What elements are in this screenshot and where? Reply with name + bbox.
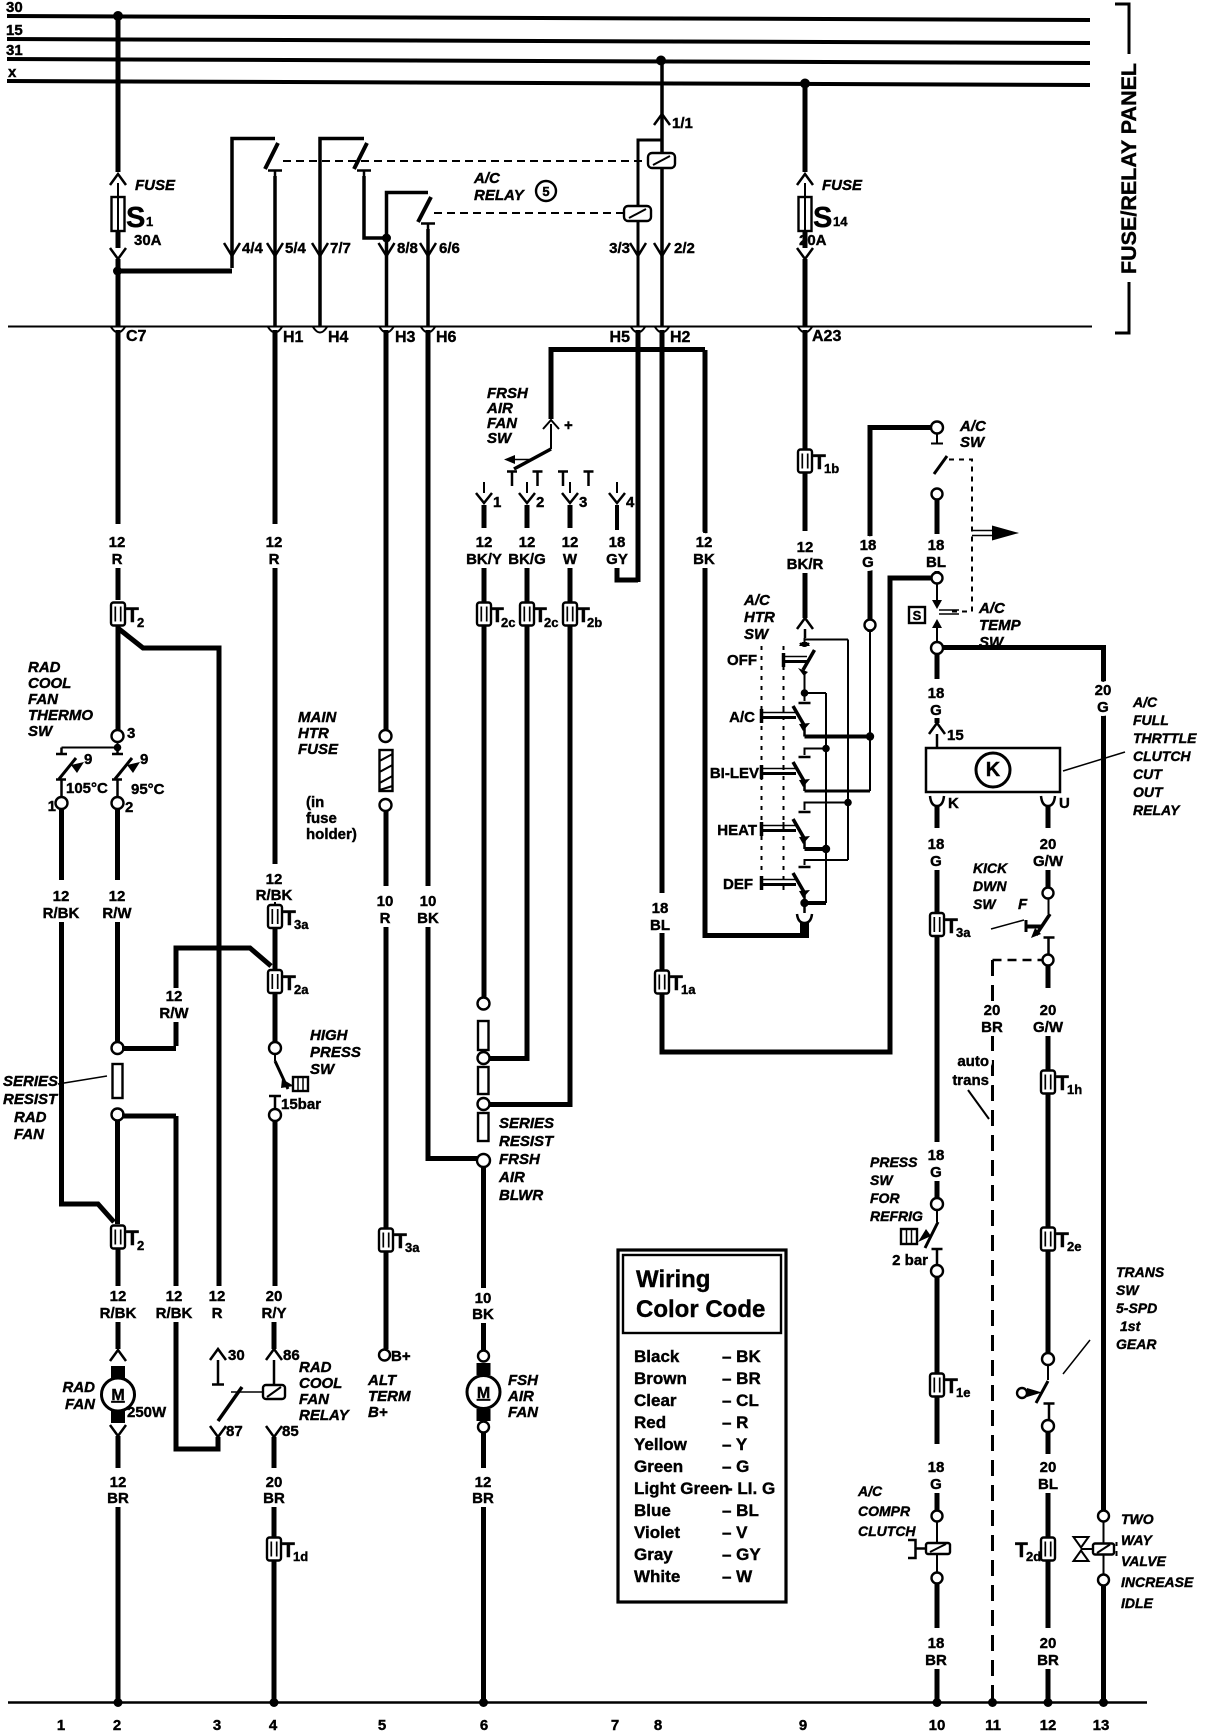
svg-text:– BK: – BK [722, 1347, 761, 1366]
svg-text:FAN: FAN [508, 1404, 539, 1421]
svg-text:RESIST: RESIST [3, 1091, 59, 1108]
connector T1h [1041, 1071, 1055, 1094]
relay 30 contact bar [212, 1360, 224, 1385]
wire trans sw down [1046, 1432, 1051, 1454]
connector T2c (2) [520, 603, 534, 626]
relay switch C left leg [387, 193, 429, 239]
svg-text:18: 18 [928, 685, 945, 702]
svg-text:Gray: Gray [634, 1545, 673, 1564]
svg-text:250W: 250W [127, 1404, 167, 1421]
svg-text:18: 18 [652, 900, 669, 917]
svg-text:2: 2 [125, 799, 133, 816]
svg-text:8/8: 8/8 [397, 240, 418, 257]
HEAT output wire [805, 847, 827, 851]
svg-text:8: 8 [654, 1717, 662, 1732]
two way valve linkage dashes [1116, 1542, 1118, 1556]
svg-text:9: 9 [140, 751, 148, 768]
svg-text:HEAT: HEAT [717, 822, 757, 839]
arrow 2/2 [654, 243, 670, 256]
svg-text:12: 12 [110, 1288, 127, 1305]
svg-text:FOR: FOR [870, 1190, 900, 1206]
svg-text:– BR: – BR [722, 1369, 761, 1388]
connector T1d [267, 1538, 281, 1561]
auto trans pointer [968, 1090, 989, 1119]
svg-text:TRANS: TRANS [1116, 1264, 1165, 1280]
svg-text:TWO: TWO [1121, 1511, 1154, 1527]
svg-text:G/W: G/W [1033, 1019, 1064, 1036]
svg-text:R: R [380, 910, 391, 927]
dashed auto trans branch [993, 959, 1043, 962]
high press sw blade [274, 1054, 276, 1061]
svg-text:G: G [930, 1476, 942, 1493]
svg-text:20: 20 [1040, 836, 1057, 853]
trans sw bottom terminal [1042, 1420, 1054, 1432]
relay switch B left leg (H4) [320, 139, 364, 327]
svg-text:THERMO: THERMO [28, 707, 93, 724]
ground dot auto trans [988, 1698, 997, 1707]
svg-text:A/C: A/C [473, 170, 501, 187]
svg-text:REFRIG: REFRIG [870, 1208, 923, 1224]
svg-text:2b: 2b [587, 615, 602, 630]
wire terminal 1 down [59, 809, 64, 880]
svg-text:1: 1 [146, 214, 153, 229]
svg-text:2: 2 [137, 615, 144, 630]
svg-text:BK/G: BK/G [508, 551, 546, 568]
wire bottom node to lower T2 [115, 1120, 120, 1224]
svg-text:2a: 2a [294, 982, 309, 997]
svg-text:R: R [269, 551, 280, 568]
wire H6 down [426, 330, 431, 886]
terminal hook A23 [798, 327, 812, 333]
svg-text:30A: 30A [134, 232, 162, 249]
svg-text:FUSE: FUSE [135, 177, 176, 194]
svg-text:BLWR: BLWR [499, 1187, 543, 1204]
RAD COOL FAN RELAY contact 30 arrow [210, 1349, 226, 1360]
arrow up into fuse S14 [797, 174, 813, 185]
svg-text:1st: 1st [1120, 1318, 1142, 1334]
svg-text:3: 3 [213, 1717, 221, 1732]
svg-text:WAY: WAY [1121, 1532, 1154, 1548]
wire trans to ground [1046, 1669, 1051, 1702]
svg-text:R/BK: R/BK [100, 1305, 137, 1322]
temp sw top node [932, 573, 943, 584]
arrow down out of fuse S1 [110, 248, 126, 259]
junction dot below OFF [801, 689, 809, 697]
svg-text:1b: 1b [824, 461, 839, 476]
harness arrow 2 [526, 482, 528, 493]
A/C blade [793, 706, 804, 725]
wire terminal 2 down [115, 809, 120, 880]
chain resistor 1 [478, 1021, 489, 1050]
wire to T3a (right) [935, 870, 940, 913]
wire arrow4 down [615, 505, 619, 530]
svg-text:TEMP: TEMP [979, 617, 1022, 634]
alternator B+ terminal [379, 1350, 390, 1361]
wire 85 down [272, 1437, 277, 1468]
SEPARATOR LINE (fuse panel bottom) [8, 326, 1092, 328]
svg-text:G: G [862, 554, 874, 571]
wire U down [1046, 806, 1051, 828]
RAD COOL FAN THERMO SW: terminal 3 [112, 730, 124, 742]
svg-text:20: 20 [266, 1288, 283, 1305]
color code rows [634, 1347, 775, 1586]
wire kick down sw down [1046, 966, 1051, 988]
wire chain node4 down [481, 1167, 486, 1288]
R/W branch from T2a [176, 948, 271, 1046]
svg-text:SERIES: SERIES [499, 1115, 554, 1132]
HEAT input T-bar [799, 811, 811, 814]
svg-text:FAN: FAN [14, 1126, 45, 1143]
wire fuse S14 lower [803, 231, 808, 248]
series resistor rad fan body [113, 1064, 123, 1098]
svg-text:FULL: FULL [1133, 712, 1169, 728]
wire T1a elbow up to A/C switch [662, 578, 932, 1052]
svg-text:12: 12 [110, 1474, 127, 1491]
wire fsh motor down [481, 1432, 486, 1468]
ground dot two way valve [1099, 1698, 1108, 1707]
relay switch C contact [421, 224, 435, 230]
svg-text:BL: BL [1038, 1476, 1058, 1493]
wire H5 down [636, 330, 641, 582]
fan switch contact posts [507, 472, 517, 487]
ground dot blower [479, 1698, 488, 1707]
svg-text:12: 12 [797, 539, 814, 556]
DEF output wire [805, 901, 827, 905]
svg-text:BK: BK [693, 551, 715, 568]
svg-text:White: White [634, 1567, 680, 1586]
svg-text:5: 5 [542, 184, 549, 199]
connector T2c (1) [477, 603, 491, 626]
wire a/c sw down [935, 499, 940, 534]
DEF contact [760, 876, 764, 890]
svg-text:auto: auto [957, 1053, 989, 1070]
wire to T2 [116, 568, 121, 600]
svg-text:10: 10 [377, 893, 394, 910]
trans sw top terminal [1042, 1353, 1054, 1365]
svg-text:2c: 2c [501, 615, 515, 630]
relay U output hook [1041, 796, 1055, 806]
svg-text:FUSE/RELAY PANEL: FUSE/RELAY PANEL [1117, 63, 1141, 274]
svg-text:H1: H1 [283, 329, 304, 346]
svg-text:1/1: 1/1 [672, 115, 693, 132]
svg-text:SERIES: SERIES [3, 1073, 58, 1090]
svg-text:2d: 2d [1026, 1549, 1041, 1564]
arrow 1/1 [654, 114, 670, 125]
svg-text:R/BK: R/BK [256, 887, 293, 904]
press sw top terminal [931, 1198, 943, 1210]
harness arrow 4 [616, 482, 618, 493]
svg-text:– Y: – Y [722, 1435, 748, 1454]
svg-text:COOL: COOL [28, 675, 71, 692]
svg-text:BR: BR [472, 1490, 494, 1507]
svg-text:5-SPD: 5-SPD [1116, 1300, 1157, 1316]
terminal hook H4 [313, 327, 327, 333]
svg-text:2: 2 [113, 1717, 121, 1732]
svg-text:BR: BR [981, 1019, 1003, 1036]
svg-text:1d: 1d [293, 1549, 308, 1564]
svg-text:PRESS: PRESS [870, 1154, 918, 1170]
terminal hook H2 [655, 327, 669, 333]
svg-text:– BL: – BL [722, 1501, 759, 1520]
rad fan motor brush top [111, 1366, 125, 1378]
connector T2 (lower) [111, 1226, 125, 1249]
svg-text:10: 10 [929, 1717, 946, 1732]
svg-text:30: 30 [228, 1347, 245, 1364]
svg-text:G: G [930, 1164, 942, 1181]
fuse S1 inner line [117, 197, 119, 231]
svg-text:10: 10 [420, 893, 437, 910]
color code header box [623, 1255, 781, 1333]
wire to T1a [660, 933, 665, 970]
svg-text:BK: BK [417, 910, 439, 927]
harness arrow 3 [569, 482, 571, 493]
wire top node to R/W branch [122, 1046, 176, 1051]
wire GY elbow to H5 [617, 568, 638, 580]
svg-text:CLUTCH: CLUTCH [1133, 748, 1191, 764]
wire R/BK branch to relay 87 [176, 1116, 218, 1449]
wire switch A to H1 [273, 176, 277, 326]
thermo switch junction dot [62, 742, 118, 748]
wire arrow3 down [568, 505, 573, 528]
svg-text:H6: H6 [436, 329, 457, 346]
fuse S1 body [112, 197, 125, 231]
rad cool fan relay coil [263, 1385, 285, 1399]
svg-text:18: 18 [609, 534, 626, 551]
svg-text:A/C: A/C [857, 1483, 883, 1499]
wire T3a to T2a [273, 928, 278, 970]
wire BK/R to htr switch [803, 573, 808, 618]
main htr fuse top terminal [380, 730, 392, 742]
press sw bottom terminal [931, 1265, 943, 1277]
svg-text:F: F [1018, 896, 1028, 913]
svg-text:3a: 3a [294, 917, 309, 932]
svg-text:B+: B+ [391, 1348, 411, 1365]
junction dot A/C output [866, 732, 874, 740]
svg-text:RAD: RAD [63, 1379, 96, 1396]
DEF input elbow [805, 860, 849, 865]
svg-text:– CL: – CL [722, 1391, 759, 1410]
common bottom socket [797, 914, 812, 923]
svg-text:– V: – V [722, 1523, 748, 1542]
fuse S14 inner line [804, 197, 806, 231]
svg-text:13: 13 [1093, 1717, 1110, 1732]
svg-text:20: 20 [1040, 1459, 1057, 1476]
wire T2c to resistor chain [482, 625, 487, 998]
svg-text:S: S [813, 202, 832, 234]
wire T2a to high press sw [273, 993, 278, 1042]
kick down sw F contact [1025, 920, 1028, 932]
BI-LEV contact [760, 765, 764, 779]
svg-text:K: K [948, 795, 959, 812]
ground dot rad fan [114, 1698, 123, 1707]
press sw pressure box [901, 1229, 917, 1244]
svg-text:FRSH: FRSH [499, 1151, 541, 1168]
kick down sw bottom terminal [1043, 955, 1054, 966]
svg-text:85: 85 [282, 1423, 299, 1440]
svg-text:1a: 1a [681, 982, 696, 997]
wire to relay coil 86 [272, 1322, 277, 1349]
svg-text:105°C: 105°C [66, 780, 108, 797]
relay K circle [976, 753, 1010, 787]
kick down sw top terminal [1043, 888, 1054, 899]
svg-text:BR: BR [107, 1490, 129, 1507]
wire T2c to chain node 2 [489, 625, 527, 1059]
wire to T2c [482, 568, 487, 602]
series resistor rad fan: top node [112, 1042, 124, 1054]
fuse S14 body [799, 197, 812, 231]
svg-text:BR: BR [1037, 1652, 1059, 1669]
svg-text:R/BK: R/BK [43, 905, 80, 922]
svg-text:BK: BK [472, 1306, 494, 1323]
svg-text:12: 12 [476, 534, 493, 551]
relay blade link to coil [231, 1391, 263, 1393]
svg-text:BK/R: BK/R [787, 556, 824, 573]
svg-text:INCREASE: INCREASE [1121, 1574, 1194, 1590]
fsh air fan top terminal [478, 1351, 489, 1362]
series resistor rad fan: bottom node [112, 1109, 124, 1121]
svg-text:6/6: 6/6 [439, 240, 460, 257]
trans sw pointer [1063, 1340, 1090, 1374]
wire to node below S1 [116, 259, 121, 326]
arrow up into fuse S1 [110, 174, 126, 185]
junction dot DEF output [800, 899, 808, 907]
svg-text:A/C: A/C [729, 709, 755, 726]
feed wire from panel to fan switch [551, 350, 705, 420]
svg-text:6: 6 [480, 1717, 488, 1732]
wire compr clutch down [935, 1583, 940, 1628]
connector T1b [798, 450, 812, 473]
svg-text:86: 86 [283, 1347, 300, 1364]
svg-text:BR: BR [263, 1490, 285, 1507]
svg-text:Yellow: Yellow [634, 1435, 688, 1454]
wire to T2c (2) [525, 568, 530, 602]
svg-text:R/BK: R/BK [156, 1305, 193, 1322]
svg-text:PRESS: PRESS [310, 1044, 361, 1061]
svg-text:A/C: A/C [1132, 694, 1158, 710]
svg-text:G: G [930, 702, 942, 719]
wire T2b to chain node 3 [489, 625, 570, 1105]
svg-text:RAD: RAD [14, 1109, 47, 1126]
dashed linkage a/c sw to temp sw [949, 460, 972, 612]
svg-text:M: M [477, 1385, 490, 1402]
wire T2e to trans sw [1046, 1250, 1051, 1353]
htr sw vertical v848 [847, 640, 849, 861]
svg-text:20: 20 [266, 1474, 283, 1491]
wire arrow2 down [525, 505, 530, 528]
junction dot HEAT input [844, 799, 852, 807]
relay coil 1 [648, 153, 675, 168]
BI-LEV input T-bar [799, 756, 811, 759]
arrow 87 [210, 1426, 226, 1437]
svg-text:SW: SW [960, 434, 986, 451]
svg-text:FUSE: FUSE [822, 177, 863, 194]
svg-text:x: x [8, 64, 17, 81]
svg-text:9: 9 [799, 1717, 807, 1732]
HEAT output stub [803, 840, 806, 849]
S sensor box [909, 607, 925, 623]
svg-text:4: 4 [269, 1717, 278, 1732]
svg-text:R/W: R/W [102, 905, 132, 922]
kick down sw pointer [991, 920, 1024, 929]
trans sw side contact [1017, 1388, 1027, 1398]
arrow 3/3 [630, 243, 646, 256]
fan switch blade [514, 449, 551, 469]
svg-text:S: S [913, 608, 922, 623]
svg-text:CUT: CUT [1133, 766, 1163, 782]
svg-text:KICK: KICK [973, 860, 1008, 876]
wire to temp sw node [935, 571, 940, 573]
svg-text:7/7: 7/7 [330, 240, 351, 257]
wire to rad fan motor [116, 1322, 121, 1349]
svg-text:1e: 1e [956, 1385, 970, 1400]
press sw blade [936, 1210, 938, 1222]
wire K down [935, 806, 940, 828]
svg-text:RAD: RAD [299, 1359, 332, 1376]
wire term2 to series resistor [115, 922, 120, 1042]
svg-text:12: 12 [166, 988, 183, 1005]
arrow 85 [266, 1426, 282, 1437]
rad fan motor body [102, 1378, 135, 1411]
svg-text:R: R [112, 551, 123, 568]
svg-text:1: 1 [48, 798, 56, 815]
wire T3a down [935, 936, 940, 1142]
svg-text:30: 30 [6, 0, 23, 16]
temp sw bottom node [931, 642, 943, 654]
arrow 15 [929, 723, 945, 734]
svg-text:18: 18 [928, 1459, 945, 1476]
arrow 4/4 [224, 243, 240, 256]
svg-text:AIR: AIR [498, 1169, 525, 1186]
svg-text:2/2: 2/2 [674, 240, 695, 257]
arrow 6/6 [420, 243, 436, 256]
svg-text:BK/Y: BK/Y [466, 551, 502, 568]
high press sw bottom contact [269, 1096, 281, 1109]
bus line 31 [7, 59, 1090, 63]
svg-text:12: 12 [166, 1288, 183, 1305]
svg-text:COOL: COOL [299, 1375, 342, 1392]
A/C output wire to a/c switch line [805, 735, 871, 739]
svg-text:2: 2 [137, 1238, 144, 1253]
DEF blade [793, 873, 804, 892]
svg-text:H2: H2 [670, 329, 691, 346]
arrow 5/4 [267, 243, 283, 256]
connector T2a (H1) [268, 970, 282, 993]
svg-text:12: 12 [1040, 1717, 1057, 1732]
compr clutch bottom terminal [936, 1554, 938, 1572]
wire T2d down [1046, 1560, 1051, 1628]
svg-text:18: 18 [860, 537, 877, 554]
svg-text:3a: 3a [956, 925, 971, 940]
terminal hook C7 [111, 327, 125, 333]
htr sw top interconnect h638 [805, 639, 848, 641]
terminal hook H1 [268, 327, 282, 333]
dashed auto trans wire [991, 960, 994, 1702]
htr sw dashed guide 2 [783, 646, 785, 890]
svg-text:HTR: HTR [744, 609, 775, 626]
svg-text:Color Code: Color Code [636, 1296, 765, 1323]
svg-text:BL: BL [650, 917, 670, 934]
svg-text:20: 20 [984, 1002, 1001, 1019]
svg-text:IDLE: IDLE [1121, 1595, 1154, 1611]
18 G node circle [865, 620, 876, 631]
svg-text:SW: SW [744, 626, 770, 643]
svg-text:12: 12 [696, 534, 713, 551]
svg-text:Violet: Violet [634, 1523, 680, 1542]
svg-text:R/Y: R/Y [261, 1305, 286, 1322]
svg-text:DWN: DWN [973, 878, 1007, 894]
relay switch A left leg [232, 139, 275, 269]
chain node 3 [478, 1098, 490, 1110]
